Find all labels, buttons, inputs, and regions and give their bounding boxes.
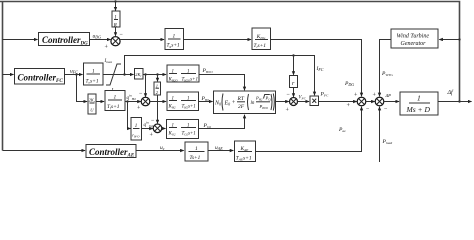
summing junction O2 [153, 124, 162, 133]
svg-text:Ts+1: Ts+1 [190, 155, 201, 161]
wire: feedback into WTG [439, 39, 459, 41]
wire: Nernst to voltage sum [276, 101, 289, 103]
wire: frequency feedback top line and right drop [0, 2, 460, 102]
wire: to Controller DG [3, 39, 38, 41]
node: q_H2 branch point [126, 100, 128, 102]
svg-text:1: 1 [156, 83, 158, 88]
node: I_FC tap [123, 73, 125, 75]
controller FC [15, 69, 65, 85]
block 1/r_H-O [131, 118, 142, 141]
wire: u_FC down to fuel flow path [77, 75, 88, 102]
wire: delta f output [438, 101, 472, 103]
svg-text:1: 1 [172, 97, 175, 102]
wire: left feedback bus [2, 2, 4, 151]
wire: to O2 pressure block [162, 128, 166, 130]
svg-text:E0: E0 [224, 101, 231, 107]
svg-text:1: 1 [114, 95, 117, 101]
block 1/(Ts+1) [185, 142, 208, 161]
wire: drop to half block [157, 75, 159, 82]
wire: governor to turbine [184, 39, 252, 41]
controller AE [86, 145, 136, 158]
svg-text:1: 1 [195, 146, 198, 152]
wire: P_H2 into Nernst [199, 101, 213, 103]
summing junction V_FC [290, 98, 298, 106]
svg-text:TH2Os+1: TH2Os+1 [182, 78, 198, 83]
svg-text:Ms + D: Ms + D [406, 105, 431, 114]
svg-text:Tfs+1: Tfs+1 [107, 104, 120, 110]
svg-text:2F: 2F [238, 104, 245, 110]
block 2K_r [135, 69, 144, 80]
governor block 1/(T_g s+1) [165, 29, 184, 50]
svg-text:PDG: PDG [344, 81, 354, 87]
wire: J1 to J2 [366, 101, 375, 103]
wire: u_c to lag block [136, 150, 184, 152]
turbine block K_DG/(T_t s+1) [252, 28, 271, 50]
wire: J2 to system inertia [384, 101, 399, 103]
limiter I_max / I_min [106, 64, 121, 85]
svg-text:Imax: Imax [104, 59, 113, 64]
droop block 1/R [112, 11, 120, 27]
svg-text:1: 1 [172, 124, 175, 129]
system block 1/(Ms+D) [400, 92, 438, 115]
wire: P_load up to J2 [379, 107, 381, 162]
node: WTG feedback tap [458, 38, 460, 40]
wire: u_FC to electrical lag [65, 74, 83, 76]
reformer block 1/(T_f s+1) [105, 91, 125, 111]
svg-text:Tts+1: Tts+1 [254, 43, 267, 49]
wire: drop to H2 sum [145, 75, 147, 97]
svg-text:uDG: uDG [93, 34, 102, 40]
svg-text:IFC: IFC [316, 66, 324, 72]
block water 1/K_H2O 1/(T_H2O s+1) [167, 65, 199, 82]
block 2K_r/U [88, 94, 96, 114]
svg-text:Tes+1: Tes+1 [86, 79, 99, 85]
block r (ohmic loss) [290, 76, 298, 88]
svg-text:ΔP: ΔP [385, 93, 392, 98]
svg-text:+: + [232, 100, 236, 106]
summing junction J1 [357, 97, 366, 106]
svg-text:Tgs+1: Tgs+1 [167, 43, 181, 49]
svg-text:1: 1 [135, 124, 138, 129]
wire: q_H2 down to ratio block [128, 102, 131, 129]
wire: to Controller FC [3, 74, 14, 76]
svg-text:1: 1 [417, 94, 421, 103]
wire: through current limiter [103, 74, 134, 76]
summing junction H2 [141, 97, 150, 106]
wire: to multiplier [298, 101, 310, 103]
svg-text:RT: RT [237, 96, 245, 102]
wire: P_O2 into Nernst bottom [199, 115, 245, 129]
wire: 2K_r out to H2O block [143, 74, 166, 76]
wire: to H2 pressure block [150, 101, 166, 103]
summing junction DG [111, 37, 120, 46]
svg-text:TH2s+1: TH2s+1 [182, 105, 196, 110]
wire: 1/R to DG sum [115, 27, 117, 36]
multiplier block [310, 96, 319, 106]
svg-text:TAEs+1: TAEs+1 [236, 156, 252, 162]
wire: P_H2O into Nernst top [199, 75, 245, 91]
node: top tap to droop block [114, 0, 116, 2]
svg-text:1: 1 [114, 16, 117, 21]
wire: u_DG to DG sum [90, 39, 111, 41]
svg-text:ln: ln [251, 101, 255, 106]
node: delta f feedback tap [458, 100, 460, 102]
svg-text:1: 1 [172, 70, 175, 75]
svg-text:VFC: VFC [299, 96, 307, 101]
node: I_FC tap to r [292, 54, 294, 56]
svg-text:Generator: Generator [401, 41, 427, 47]
controller DG [39, 33, 90, 46]
block 1/2 [154, 82, 161, 95]
svg-text:1: 1 [92, 69, 95, 75]
svg-text:1: 1 [187, 124, 190, 129]
svg-text:1: 1 [173, 34, 176, 40]
electrolyzer block K_AE/(T_AE s+1) [235, 141, 256, 162]
wire: P_DG down to sum J1 [271, 40, 362, 97]
wire: P_FC to J1 [319, 101, 357, 103]
block 1/(T_e s+1) [84, 63, 104, 85]
svg-text:KO2: KO2 [168, 132, 177, 137]
wire: half block to O2 sum [157, 95, 159, 123]
svg-text:1: 1 [187, 97, 190, 102]
summing junction J2 [375, 97, 384, 106]
svg-text:KH2: KH2 [168, 105, 177, 110]
wire: to reformer lag [96, 101, 104, 103]
block hydrogen 1/K_H2 1/(T_H2 s+1) [167, 92, 199, 111]
wire: DG sum to governor [120, 39, 164, 41]
svg-text:1: 1 [187, 70, 190, 75]
wire: q_O2 to O2 sum [142, 128, 153, 130]
wire: to electrolyzer gain [208, 150, 233, 152]
wind turbine generator [391, 29, 438, 48]
block oxygen 1/K_O2 1/(T_O2 s+1) [167, 120, 199, 139]
svg-text:TO2s+1: TO2s+1 [182, 132, 196, 137]
node: u_FC branch point [75, 73, 77, 75]
svg-text:KH2O: KH2O [168, 78, 179, 83]
svg-text:N0: N0 [214, 101, 221, 107]
wire: to Controller AE [3, 150, 86, 152]
wire: I_FC into r [293, 56, 295, 75]
svg-text:R: R [113, 24, 117, 29]
wire: P_ae up to J1 [256, 107, 362, 152]
wire: I_FC line to multiplier [125, 56, 315, 96]
wire: q_H2 to H2 sum [125, 101, 141, 103]
svg-text:Wind Turbine: Wind Turbine [397, 34, 430, 40]
wire: r drop to voltage sum [293, 88, 295, 97]
fuel cell Nernst block N0(E0+RT/2F(ln(PH2*sqrt(PO2)/PH2O))) [214, 91, 276, 114]
wire: P_WTG down to J2 [380, 40, 392, 97]
